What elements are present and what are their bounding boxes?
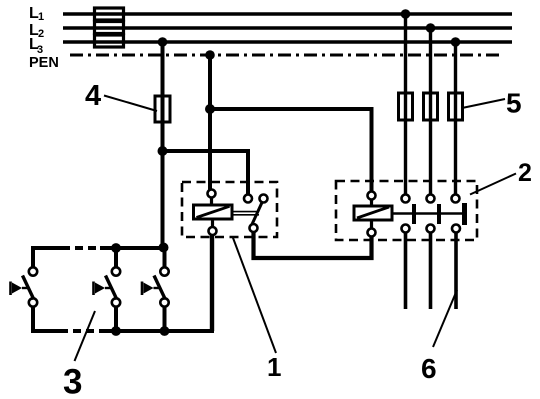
svg-text:2: 2 (38, 28, 44, 40)
wire: L3 drop to contactor (454, 42, 457, 195)
wire: L1 drop to contactor (404, 14, 407, 195)
node on L3 feeding control circuit (158, 37, 168, 47)
node at PEN branch to contactor coil (205, 104, 215, 114)
relay coil (1) (194, 205, 233, 219)
wire S2 bottom (114, 307, 118, 331)
node on L3 (451, 37, 461, 47)
relay contact arm (252, 202, 262, 225)
bus line L2 (63, 26, 512, 30)
contactor pole 3 contact bar (462, 203, 467, 225)
leader line to label 4 (104, 96, 157, 112)
bus line L3 (63, 40, 512, 44)
pushbutton top rail solid segment (100, 246, 168, 250)
fuse 5a (399, 93, 413, 120)
wire stub coil top (210, 198, 213, 206)
svg-text:1: 1 (267, 352, 281, 382)
impulse relay U1 dashed enclosure (182, 182, 277, 237)
wire: load line 3 (to motor) (454, 233, 458, 310)
contactor pole 1 contact bar (412, 204, 416, 224)
leader line to label 6 (433, 290, 457, 347)
wire: relay coil bottom down to pushbutton bottom rail (210, 235, 214, 331)
contactor pole 2 contact bar (437, 204, 441, 224)
label L3 (29, 36, 43, 56)
wire: junction down to pushbutton top rail (161, 151, 165, 247)
leader line to label 1 (233, 237, 277, 354)
wire: load line 2 (to motor) (429, 233, 433, 310)
wire S3 bottom (163, 307, 167, 331)
label 3 (63, 363, 82, 399)
pushbutton S1 (11, 267, 38, 306)
contactor pole 1 bottom terminal (402, 225, 410, 233)
node at junction of fuse-4 wire and contact feed (158, 146, 168, 156)
mechanical link coil to contact (232, 212, 259, 215)
label 6 (421, 353, 437, 384)
node on L2 (426, 23, 436, 33)
relay coil bottom terminal (209, 227, 217, 235)
svg-text:4: 4 (85, 80, 101, 112)
label PEN (29, 55, 59, 71)
wire S1 bottom with corner to bottom rail (33, 307, 60, 331)
fuse on L2 (95, 22, 124, 34)
wire stub contactor coil top (370, 200, 373, 207)
pushbutton S2 (94, 267, 121, 306)
label L1 (29, 5, 44, 23)
pushbutton top rail dashed extension (62, 246, 100, 250)
node top rail at S2 (111, 243, 121, 253)
wire stub to S2 top (114, 248, 118, 267)
svg-text:2: 2 (518, 159, 532, 187)
svg-text:5: 5 (506, 88, 522, 119)
wire stub contactor coil bottom (370, 220, 373, 229)
label 1 (267, 352, 281, 382)
node on PEN (205, 50, 215, 60)
wire: L2 drop to contactor (429, 28, 432, 195)
contactor coil bottom terminal (368, 229, 376, 237)
wire: load line 1 (to motor) (404, 233, 408, 310)
contactor pole 2 top terminal (427, 195, 435, 203)
relay contact fixed terminal (244, 195, 252, 203)
bus line L1 (63, 12, 512, 16)
svg-text:3: 3 (63, 363, 82, 395)
wire: PEN down to relay coil (208, 55, 212, 190)
svg-text:PEN: PEN (29, 55, 59, 71)
relay contact arm pivot terminal (260, 195, 268, 203)
relay contact bottom terminal (250, 224, 258, 232)
relay coil top terminal (208, 190, 216, 198)
fuse 5b (424, 93, 438, 120)
wire: L3 down through fuse 4 to junction (161, 42, 165, 151)
wire stub to S3 top (163, 248, 167, 268)
label 4 (85, 80, 101, 112)
label L2 (29, 22, 44, 40)
pushbutton S3 (142, 267, 169, 306)
node top rail at S3 (159, 243, 169, 253)
mechanical link bar of contactor (392, 212, 466, 215)
wire: junction right then down to relay contact (163, 151, 249, 195)
label 5 (506, 88, 522, 119)
label 2 (518, 159, 532, 187)
leader line to label 2 (470, 174, 516, 195)
wire: relay contact to contactor coil bottom (254, 232, 372, 258)
node bottom rail at S3 (160, 326, 170, 336)
svg-text:1: 1 (38, 11, 44, 23)
pushbutton top rail with corner to S1 (33, 248, 62, 267)
svg-text:6: 6 (421, 353, 437, 384)
fuse on L1 (95, 8, 124, 20)
fuse 5c (449, 93, 463, 120)
contactor coil (2) (354, 206, 392, 220)
leader line to label 3 (75, 311, 96, 361)
node bottom rail at S2 (111, 326, 121, 336)
contactor pole 1 top terminal (402, 195, 410, 203)
fuse on L3 (95, 35, 124, 47)
contactor K1 dashed enclosure (336, 181, 477, 240)
contactor pole 3 top terminal (452, 195, 460, 203)
pushbutton bottom rail dashed extension (60, 329, 100, 333)
contactor pole 2 bottom terminal (427, 225, 435, 233)
bus line PEN (dash-dot) (70, 54, 504, 57)
node on L1 (401, 9, 411, 19)
wire stub coil bottom (211, 219, 214, 227)
fuse 4 (155, 96, 170, 122)
pushbutton bottom rail solid segment (100, 329, 214, 333)
contactor pole 3 bottom terminal (452, 225, 460, 233)
leader line to label 5 (462, 99, 505, 108)
wire: PEN branch right then down to contactor coil top (210, 109, 372, 192)
contactor coil top terminal (368, 192, 376, 200)
